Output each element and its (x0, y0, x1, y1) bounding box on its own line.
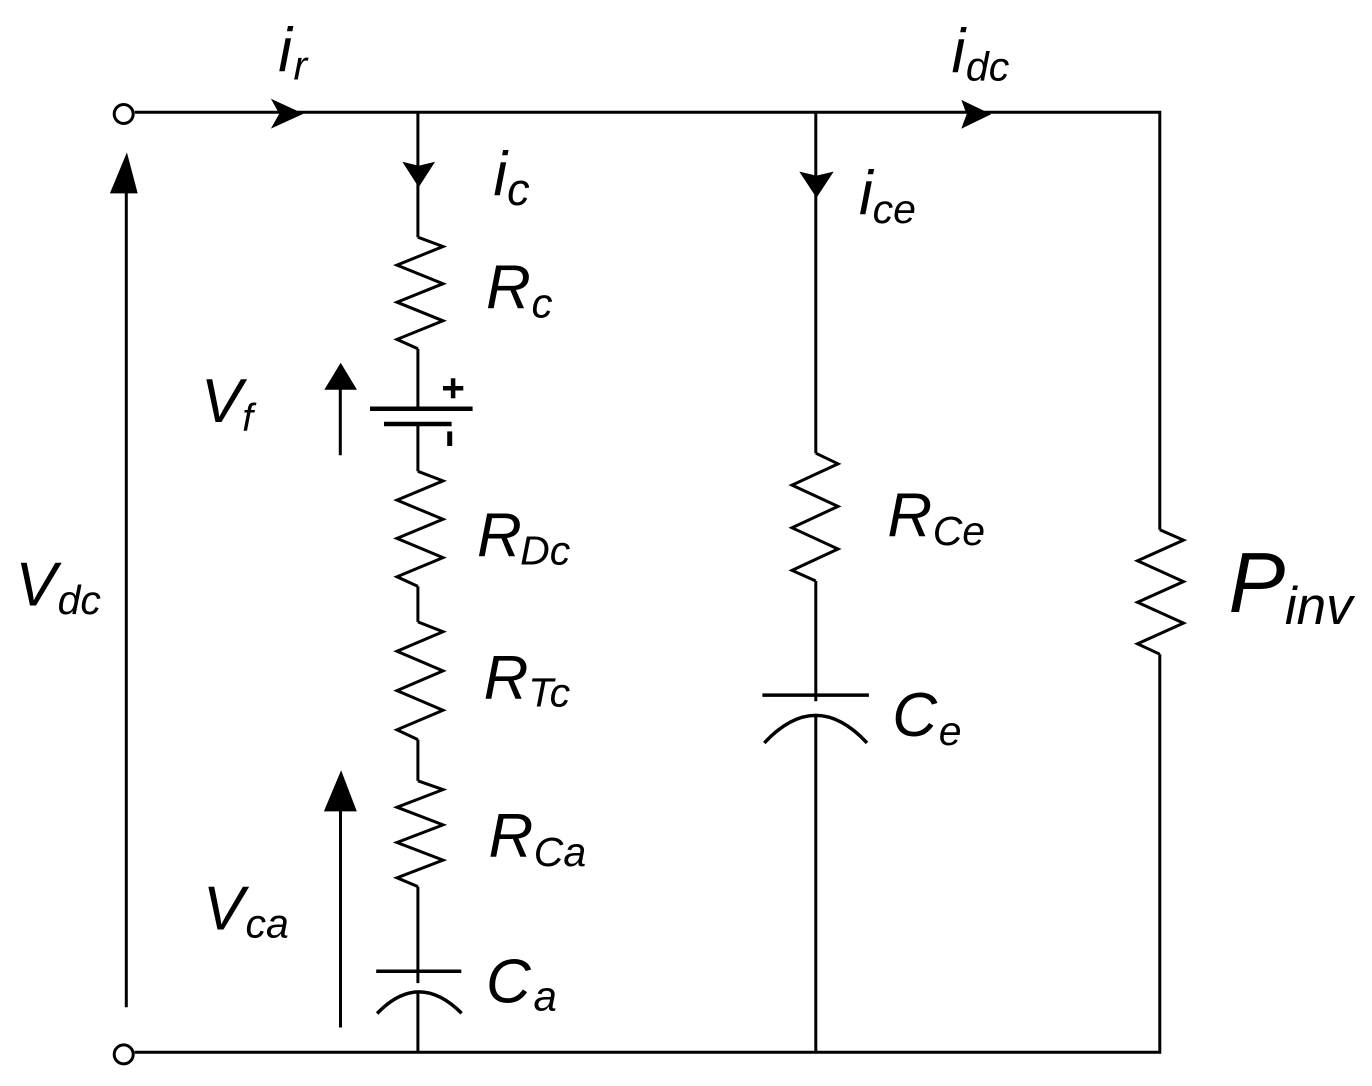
svg-text:C: C (486, 948, 532, 1017)
svg-text:R: R (489, 802, 534, 871)
svg-text:c: c (532, 280, 553, 327)
svg-text:Dc: Dc (520, 528, 571, 574)
svg-text:ce: ce (873, 186, 916, 232)
svg-text:R: R (887, 482, 932, 551)
svg-text:c: c (507, 164, 529, 215)
svg-text:i: i (278, 16, 294, 85)
svg-text:dc: dc (966, 44, 1010, 90)
svg-text:inv: inv (1285, 577, 1356, 636)
svg-text:P: P (1229, 536, 1286, 631)
svg-text:C: C (892, 681, 938, 750)
svg-text:V: V (16, 551, 63, 620)
svg-text:a: a (534, 973, 557, 1020)
svg-text:e: e (939, 708, 962, 754)
svg-text:dc: dc (58, 577, 102, 623)
svg-text:R: R (477, 502, 522, 571)
svg-text:R: R (484, 644, 529, 713)
svg-text:ca: ca (246, 900, 289, 946)
svg-text:Ca: Ca (534, 829, 586, 875)
svg-text:V: V (203, 874, 250, 943)
svg-text:V: V (201, 367, 248, 436)
svg-text:r: r (294, 42, 310, 88)
svg-text:R: R (486, 253, 531, 322)
svg-text:Tc: Tc (528, 670, 570, 716)
svg-text:Ce: Ce (933, 508, 985, 554)
